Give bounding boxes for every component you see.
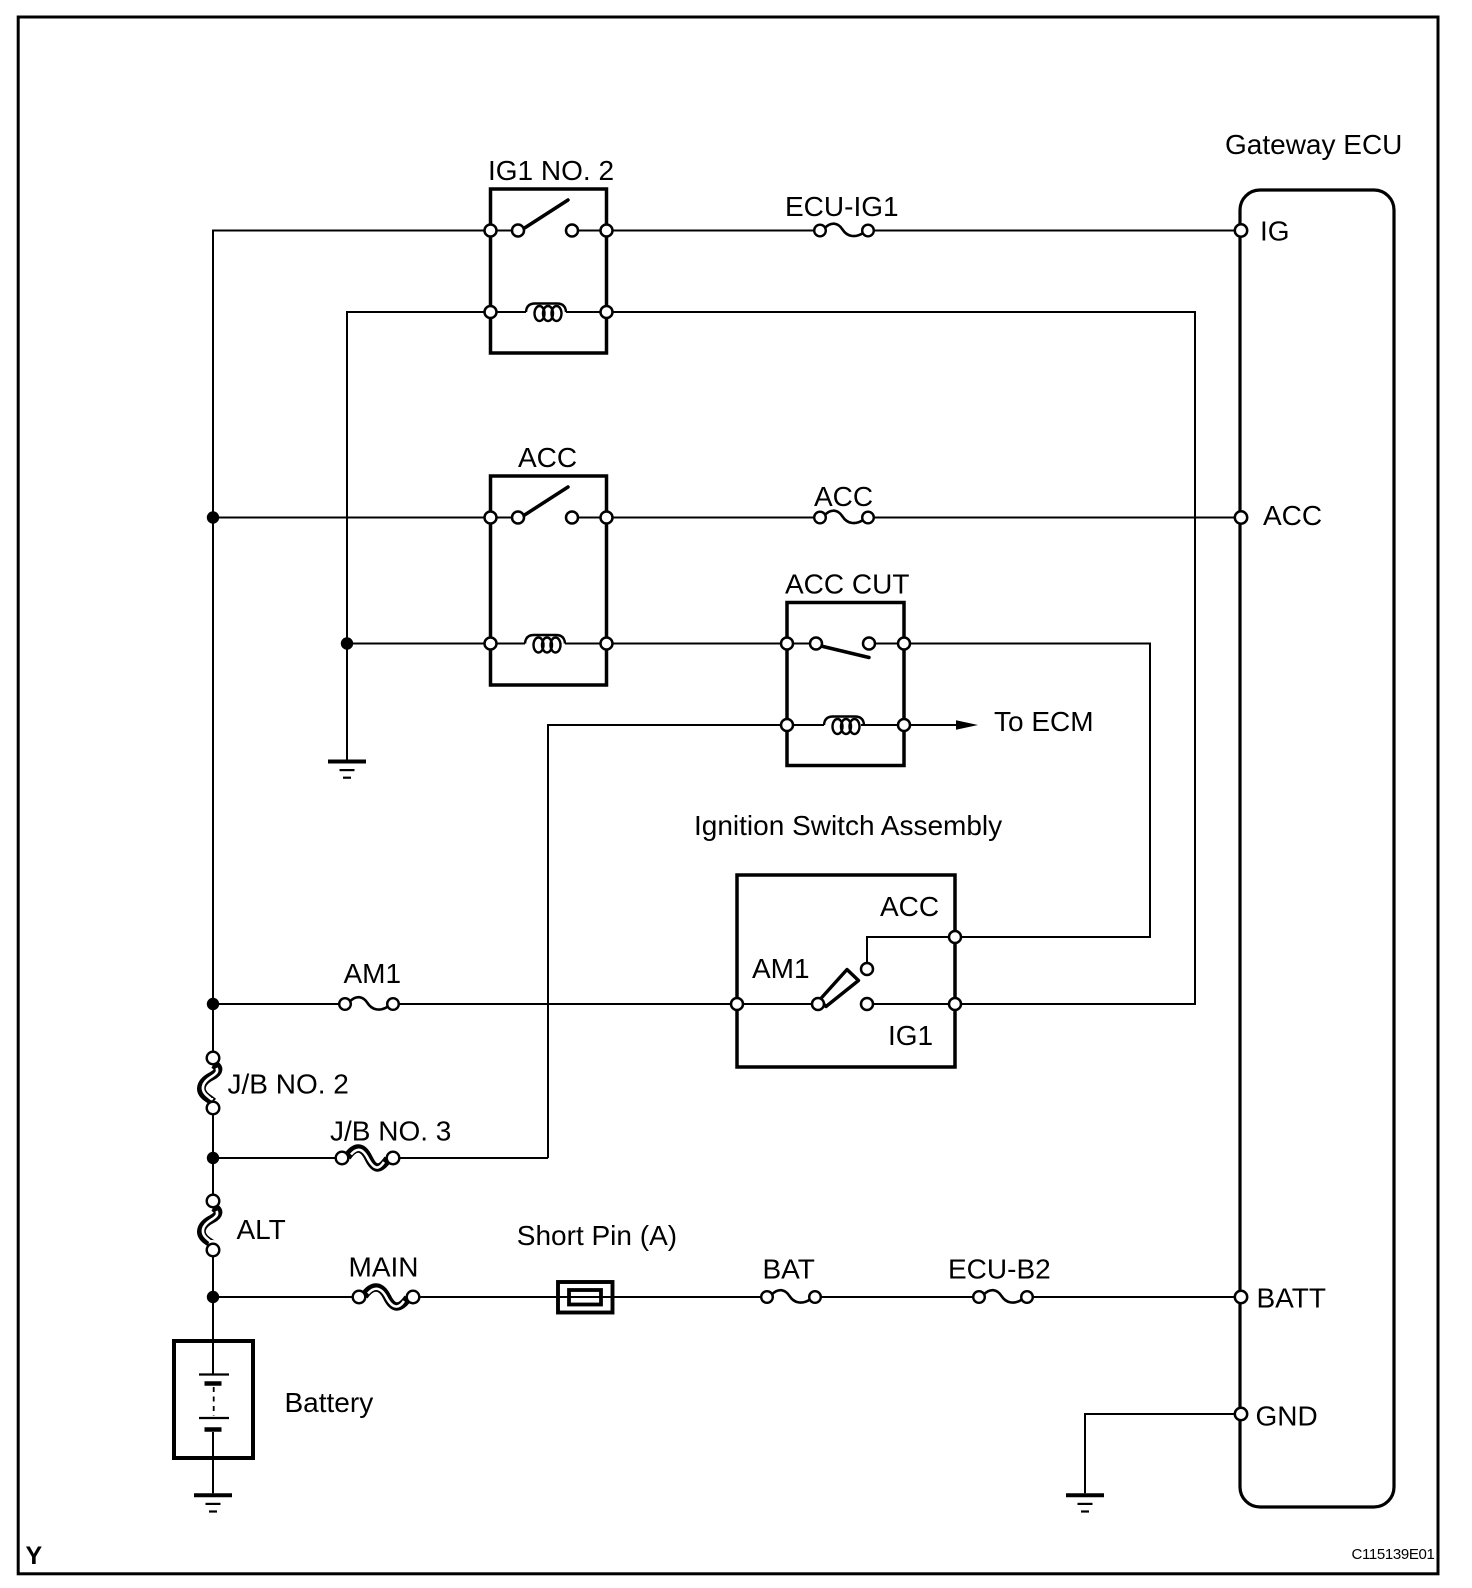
svg-text:Y: Y bbox=[26, 1542, 43, 1570]
svg-text:J/B NO. 2: J/B NO. 2 bbox=[228, 1069, 349, 1100]
svg-text:ACC CUT: ACC CUT bbox=[785, 569, 909, 600]
svg-text:ACC: ACC bbox=[1263, 500, 1322, 531]
svg-text:C115139E01: C115139E01 bbox=[1352, 1546, 1435, 1563]
svg-text:Gateway ECU: Gateway ECU bbox=[1225, 129, 1402, 160]
svg-text:ACC: ACC bbox=[880, 891, 939, 922]
svg-text:IG: IG bbox=[1260, 216, 1290, 247]
svg-text:BAT: BAT bbox=[763, 1254, 815, 1285]
svg-text:BATT: BATT bbox=[1257, 1283, 1326, 1314]
svg-text:J/B NO. 3: J/B NO. 3 bbox=[330, 1116, 451, 1147]
svg-text:ACC: ACC bbox=[518, 442, 577, 473]
svg-text:ALT: ALT bbox=[237, 1214, 286, 1245]
svg-text:To ECM: To ECM bbox=[994, 706, 1094, 737]
svg-text:ECU-B2: ECU-B2 bbox=[948, 1254, 1051, 1285]
svg-text:MAIN: MAIN bbox=[349, 1252, 419, 1283]
svg-text:Short Pin (A): Short Pin (A) bbox=[517, 1220, 677, 1251]
svg-text:IG1 NO. 2: IG1 NO. 2 bbox=[488, 155, 614, 186]
svg-text:ECU-IG1: ECU-IG1 bbox=[785, 191, 899, 222]
svg-text:ACC: ACC bbox=[814, 481, 873, 512]
svg-text:IG1: IG1 bbox=[888, 1020, 933, 1051]
svg-text:GND: GND bbox=[1256, 1401, 1318, 1432]
svg-text:Battery: Battery bbox=[285, 1387, 374, 1418]
svg-text:AM1: AM1 bbox=[344, 958, 402, 989]
svg-text:Ignition Switch Assembly: Ignition Switch Assembly bbox=[694, 810, 1002, 841]
svg-text:AM1: AM1 bbox=[752, 953, 810, 984]
